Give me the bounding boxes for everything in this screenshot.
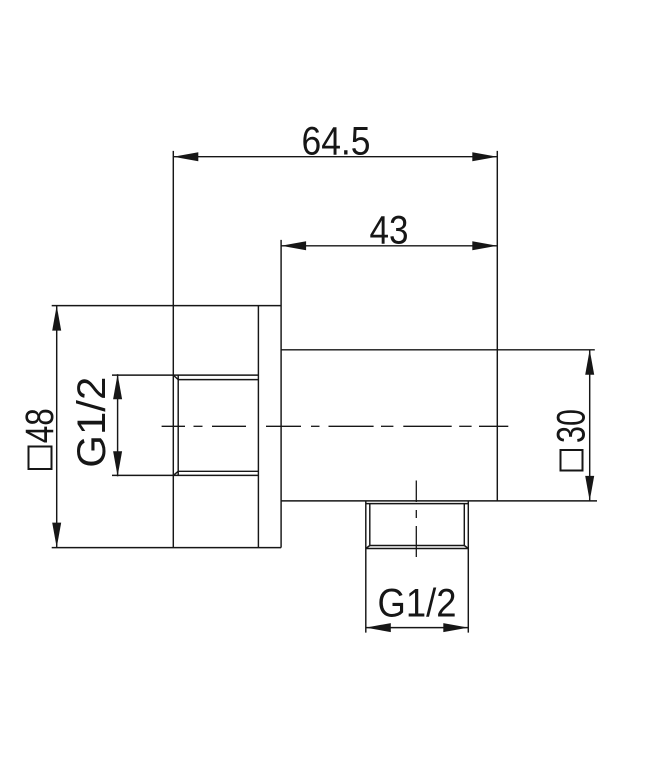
svg-text:43: 43	[370, 209, 409, 253]
svg-text:64.5: 64.5	[302, 120, 371, 164]
svg-text:G1/2: G1/2	[378, 581, 457, 625]
svg-text:30: 30	[550, 409, 594, 443]
svg-text:48: 48	[18, 408, 62, 443]
svg-text:G1/2: G1/2	[70, 377, 114, 468]
